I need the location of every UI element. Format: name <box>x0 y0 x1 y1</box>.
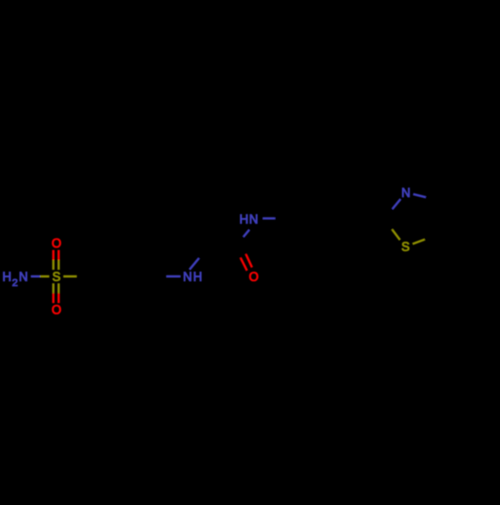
svg-text:O: O <box>52 303 62 317</box>
atom label N2 H (aniline NH) <box>183 270 202 284</box>
svg-text:N: N <box>19 270 28 284</box>
double bond S1=O top, line 2 red half <box>58 250 60 260</box>
svg-text:H: H <box>239 212 248 226</box>
bond C8-C9 (black) <box>204 247 237 249</box>
bond S2-C7a sulfur half <box>413 239 425 244</box>
bond N4-C3a blue half <box>413 194 426 197</box>
benzo ring of benzothiazole (black on black) <box>436 184 495 250</box>
bond N1-S1 (blue half) <box>31 275 40 277</box>
bond C2-S2 sulfur half <box>392 229 400 240</box>
bond C9-N3 carbon half (black) <box>237 237 244 248</box>
bond S1-C(ring1) sulfur half <box>63 275 76 277</box>
double bond S1=O bottom, line 2 red half <box>58 293 60 303</box>
svg-text:H: H <box>193 270 202 284</box>
svg-text:N: N <box>401 186 410 200</box>
bond N2-C8 blue half <box>190 258 200 270</box>
bond C2-N4 blue half <box>392 199 400 209</box>
bond C(ring1)-N2 blue half <box>166 275 180 277</box>
bond N1-S1 (sulfur half) <box>40 275 49 277</box>
bond S2-C7a black half <box>425 235 437 240</box>
atom label H2N (sulfonamide nitrogen N1) <box>2 270 28 289</box>
double bond C9=O3 line 1 red half <box>246 254 252 267</box>
double bond C9=O3 line 2 red half <box>241 258 247 271</box>
bond N2-C8 carbon half (black) <box>199 248 204 258</box>
double bond C9=O3 line 2 black half <box>235 249 241 258</box>
double bond S1=O bottom, line 2 sulfur half <box>58 283 60 293</box>
bond C9-N3 blue half <box>243 230 249 237</box>
double bond S1=O bottom, line 1 red half <box>52 293 54 303</box>
bond N3-C(ring2) blue half <box>263 217 276 219</box>
bond C2-S2 black half <box>384 218 392 229</box>
svg-text:N: N <box>249 212 258 226</box>
benzene ring 2 (carbon bonds, black on black) <box>275 190 351 247</box>
thiazole ring: bond C2-N4 black half <box>384 209 392 218</box>
double bond S1=O top, line 1 red half <box>52 250 54 260</box>
bond N4-C3a black half <box>426 197 438 200</box>
double bond S1=O bottom, line 1 sulfur half <box>52 283 54 293</box>
benzene ring 1 (carbon bonds, black on black) <box>77 248 155 305</box>
svg-text:S: S <box>401 240 409 254</box>
svg-text:2: 2 <box>12 277 18 289</box>
svg-text:S: S <box>52 270 60 284</box>
atom label HN (amide nitrogen N3) <box>239 212 258 226</box>
svg-text:O: O <box>249 270 259 284</box>
double bond S1=O top, line 1 sulfur half <box>52 260 54 270</box>
svg-text:N: N <box>183 270 192 284</box>
svg-text:H: H <box>2 270 11 284</box>
double bond C9=O3 line 1 black half <box>240 246 246 254</box>
svg-text:O: O <box>52 236 62 250</box>
double bond S1=O top, line 2 sulfur half <box>58 260 60 270</box>
bond C(ring2)-C2 thiazole link (black) <box>352 217 385 219</box>
